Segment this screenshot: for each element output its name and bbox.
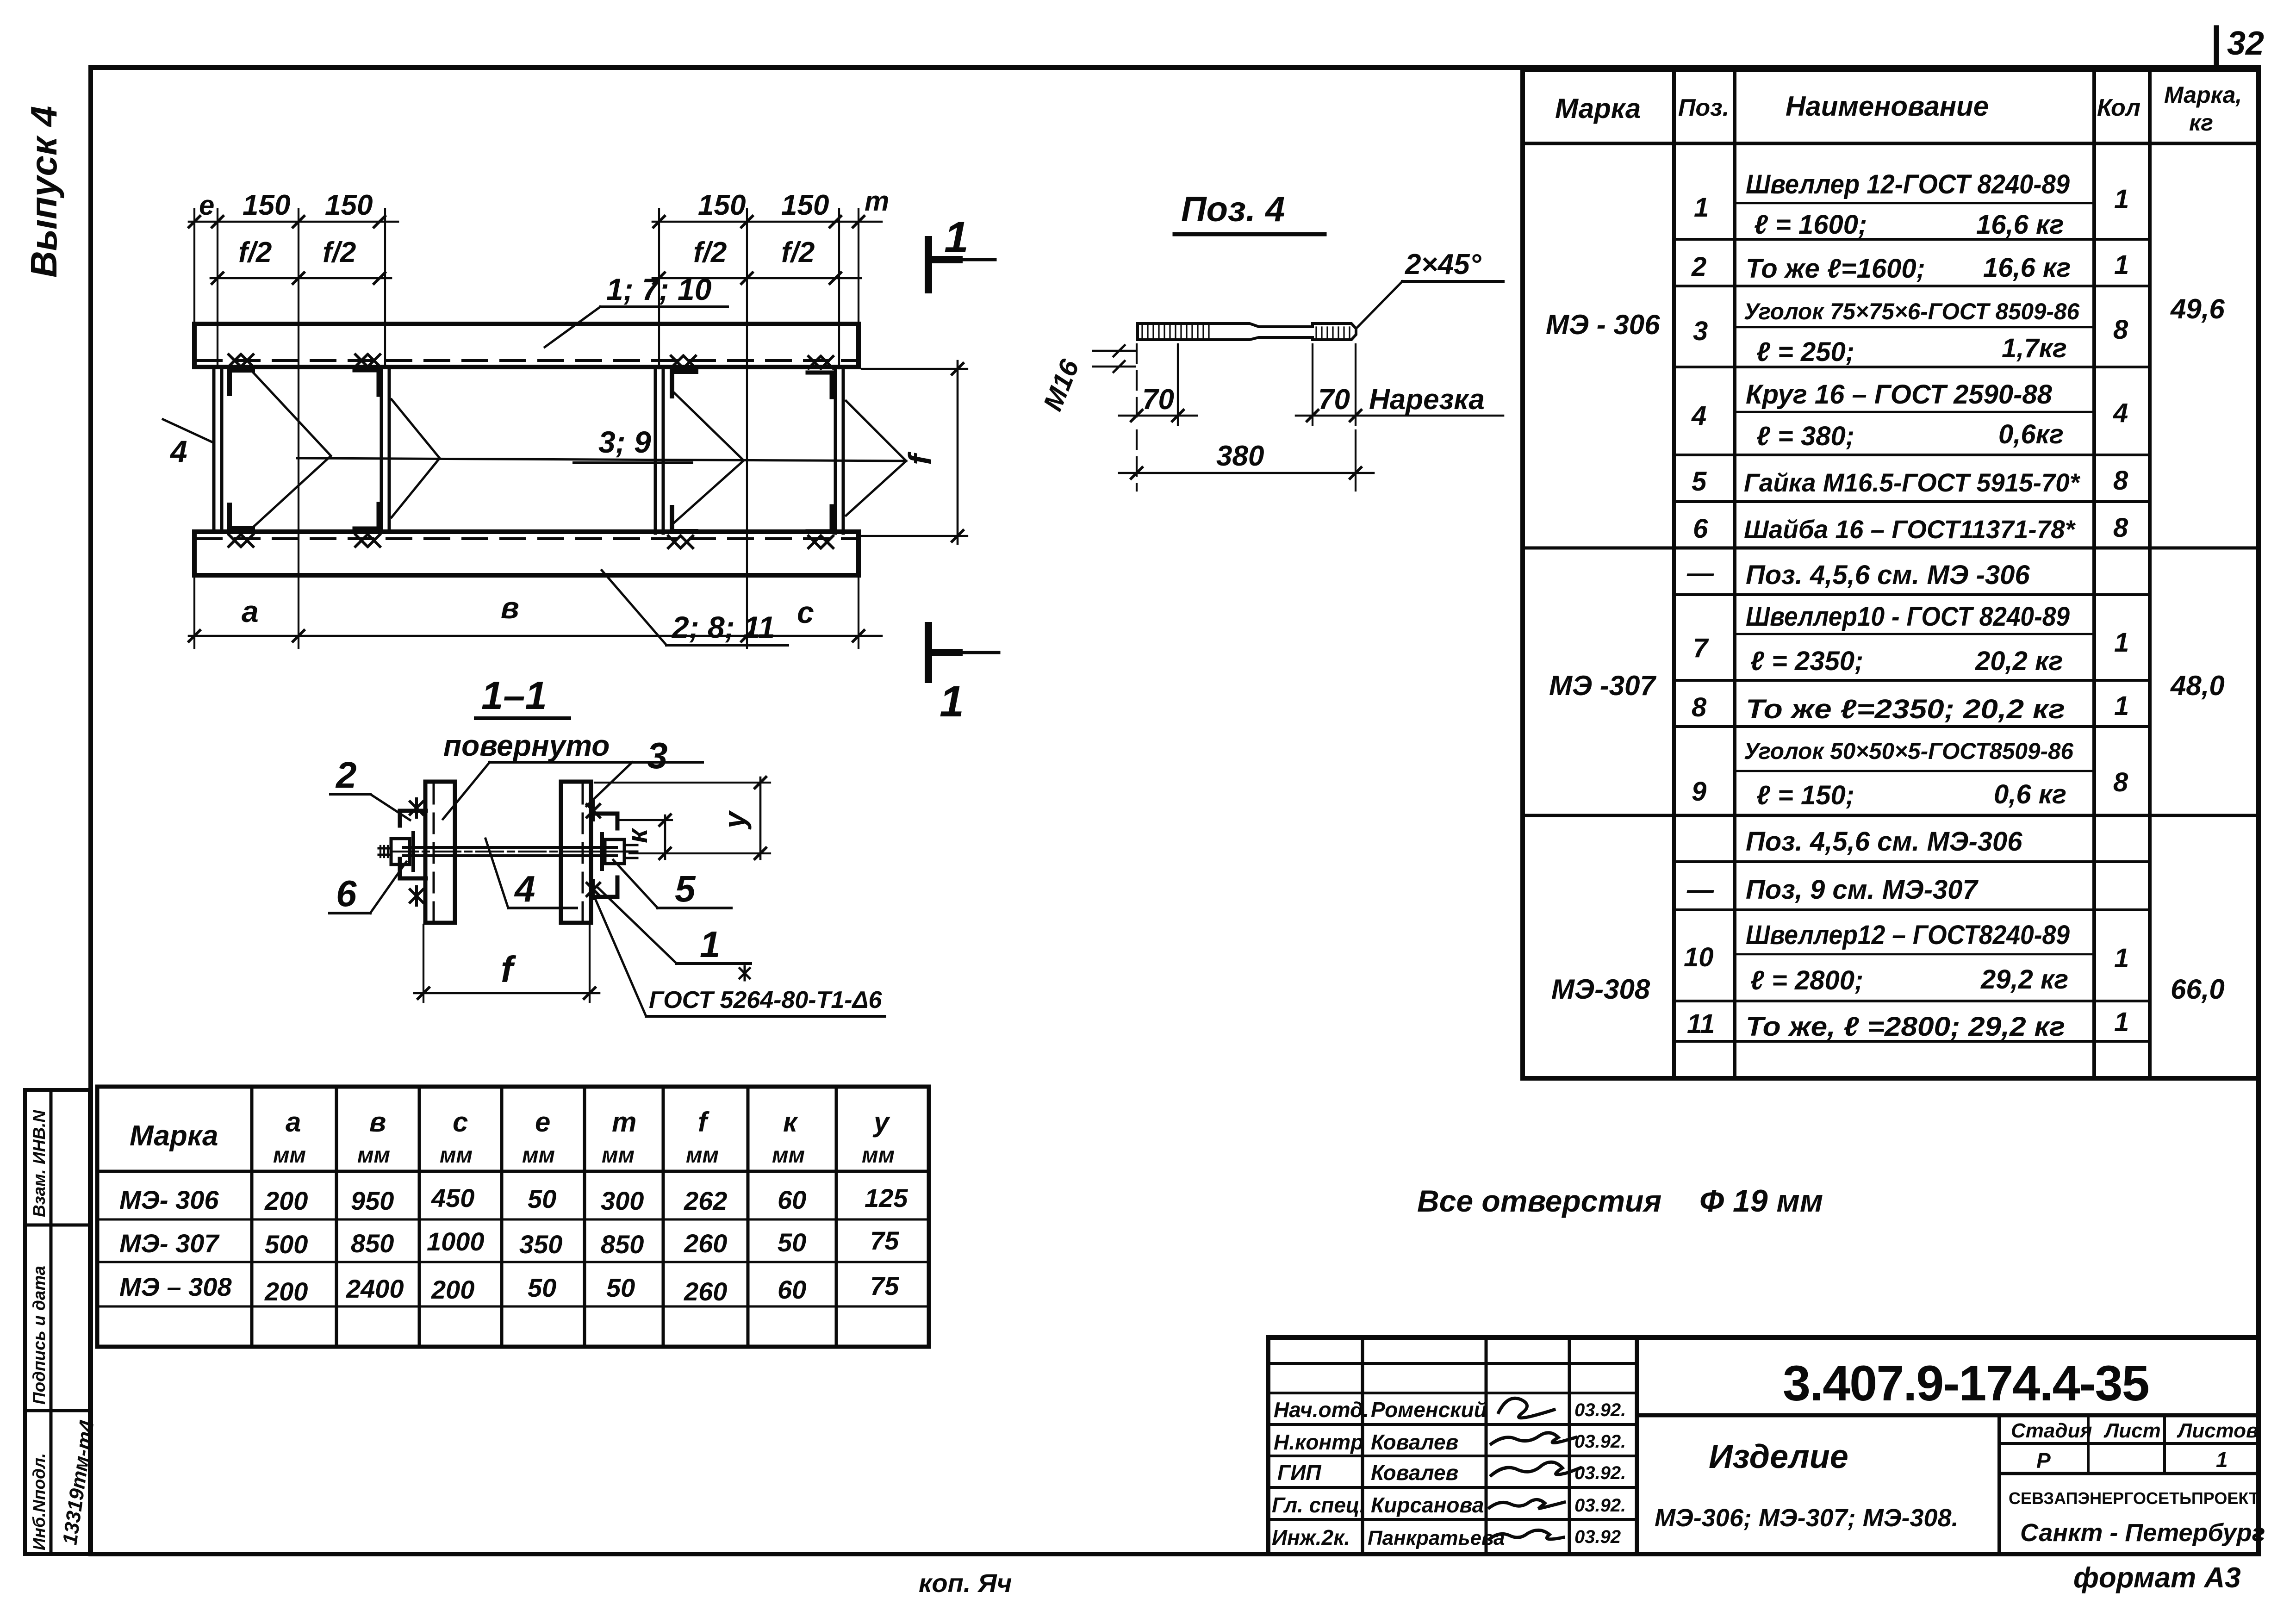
svg-text:ℓ = 150;: ℓ = 150; xyxy=(1756,780,1854,810)
svg-text:Выпуск 4: Выпуск 4 xyxy=(23,106,64,278)
svg-text:4: 4 xyxy=(1691,401,1706,431)
svg-text:e: e xyxy=(199,190,214,221)
strut 3 angle pair xyxy=(654,368,657,533)
svg-text:Все отверстия: Все отверстия xyxy=(1417,1184,1661,1218)
strut 1 top cleat xyxy=(230,370,253,394)
svg-text:коп. Яч: коп. Яч xyxy=(919,1568,1012,1598)
section dimension у xyxy=(595,782,770,784)
svg-text:Стадия: Стадия xyxy=(2011,1419,2092,1442)
svg-text:МЭ-308: МЭ-308 xyxy=(1551,974,1650,1005)
svg-text:1,7кг: 1,7кг xyxy=(2002,333,2067,363)
BOM vertical: Марка|Поз xyxy=(1672,69,1676,1078)
svg-text:Роменский: Роменский xyxy=(1371,1398,1487,1422)
svg-text:То же ℓ=1600;: То же ℓ=1600; xyxy=(1746,254,1925,284)
BOM row lines xyxy=(1735,202,2094,205)
strut 1 angle pair (poz 3;9) xyxy=(212,367,216,532)
svg-text:МЭ- 306: МЭ- 306 xyxy=(119,1185,219,1214)
svg-text:950: 950 xyxy=(351,1186,394,1215)
signature squiggles xyxy=(1499,1398,1554,1418)
svg-text:Нарезка: Нарезка xyxy=(1369,384,1485,416)
svg-text:Лист: Лист xyxy=(2103,1419,2161,1442)
bottom extension lines xyxy=(193,575,195,648)
strut 4 bottom cleat xyxy=(808,506,832,531)
svg-text:—: — xyxy=(1686,558,1714,588)
svg-text:50: 50 xyxy=(528,1184,556,1213)
svg-text:8: 8 xyxy=(1692,692,1707,722)
svg-text:1: 1 xyxy=(2114,250,2129,280)
svg-text:Листов: Листов xyxy=(2177,1419,2259,1442)
svg-text:мм: мм xyxy=(273,1143,306,1168)
svg-text:мм: мм xyxy=(602,1143,635,1168)
svg-text:ℓ = 250;: ℓ = 250; xyxy=(1756,337,1854,367)
svg-text:Санкт - Петербург: Санкт - Петербург xyxy=(2020,1519,2265,1547)
svg-text:380: 380 xyxy=(1216,440,1264,472)
svg-text:6: 6 xyxy=(336,873,357,914)
strut 4 top cleat xyxy=(808,373,832,397)
extension lines top-left xyxy=(193,209,195,324)
svg-text:75: 75 xyxy=(870,1271,899,1300)
svg-text:70: 70 xyxy=(1318,384,1350,416)
left bolt tip xyxy=(379,847,391,850)
svg-text:260: 260 xyxy=(684,1277,727,1306)
svg-text:1: 1 xyxy=(1694,193,1709,223)
page number tick mark xyxy=(2214,28,2219,68)
svg-text:60: 60 xyxy=(778,1185,806,1214)
svg-text:m: m xyxy=(865,186,889,217)
svg-text:Ф 19 мм: Ф 19 мм xyxy=(1699,1183,1823,1219)
svg-text:ГОСТ 5264-80-Т1-Δ6: ГОСТ 5264-80-Т1-Δ6 xyxy=(649,987,883,1014)
svg-text:200: 200 xyxy=(431,1275,474,1304)
document number cell xyxy=(1637,1413,2259,1418)
svg-text:1: 1 xyxy=(944,213,969,262)
svg-text:Поз. 4,5,6 см. МЭ -306: Поз. 4,5,6 см. МЭ -306 xyxy=(1746,560,2030,590)
dim table header line xyxy=(97,1170,929,1173)
svg-text:Подпись и дата: Подпись и дата xyxy=(30,1266,49,1405)
svg-text:c: c xyxy=(453,1107,468,1138)
svg-text:1: 1 xyxy=(2114,943,2129,973)
svg-text:a: a xyxy=(286,1107,301,1138)
svg-text:2: 2 xyxy=(335,754,357,796)
svg-text:f/2: f/2 xyxy=(781,236,815,268)
right bolt tip hatched xyxy=(624,845,637,858)
svg-text:48,0: 48,0 xyxy=(2170,670,2225,701)
svg-text:300: 300 xyxy=(601,1186,644,1215)
svg-text:125: 125 xyxy=(865,1183,908,1213)
svg-text:2: 2 xyxy=(1691,252,1706,282)
svg-text:Н.контр: Н.контр xyxy=(1274,1430,1363,1454)
svg-text:2; 8; 11: 2; 8; 11 xyxy=(671,610,775,644)
svg-text:у: у xyxy=(717,810,752,830)
svg-text:Инж.2к.: Инж.2к. xyxy=(1272,1525,1350,1549)
signature zone row lines xyxy=(1268,1362,1637,1365)
strut 1 top weld marks xyxy=(229,354,253,367)
rod left end cap xyxy=(1136,323,1139,340)
section mark 1 (top) xyxy=(925,240,932,290)
svg-text:03.92.: 03.92. xyxy=(1574,1400,1626,1420)
svg-text:МЭ- 307: МЭ- 307 xyxy=(119,1229,220,1258)
svg-text:m: m xyxy=(612,1107,636,1138)
svg-text:70: 70 xyxy=(1142,384,1174,416)
left margin stamp column box xyxy=(25,1090,90,1554)
left margin stamp column divider xyxy=(50,1090,53,1554)
svg-text:60: 60 xyxy=(778,1275,806,1304)
svg-text:Марка,: Марка, xyxy=(2164,82,2242,108)
svg-text:Поз.: Поз. xyxy=(1678,94,1729,121)
left washer xyxy=(411,833,415,870)
title block outer border xyxy=(1268,1337,2259,1554)
svg-text:1000: 1000 xyxy=(427,1227,485,1256)
svg-text:Нач.отд.: Нач.отд. xyxy=(1274,1398,1369,1422)
top channel (poz 1;7;10) xyxy=(194,324,859,367)
svg-text:20,2 кг: 20,2 кг xyxy=(1975,646,2063,676)
top-left dimension row: f/2 f/2 xyxy=(211,277,391,280)
svg-text:850: 850 xyxy=(601,1230,644,1259)
top-right dimension row: f/2 f/2 xyxy=(653,277,861,280)
strut 4 top weld marks xyxy=(809,356,833,368)
BOM vertical: Кол|Марка,кг xyxy=(2148,69,2152,1078)
svg-text:49,6: 49,6 xyxy=(2170,293,2225,324)
BOM vertical: Поз|Наименование xyxy=(1733,69,1736,1078)
section weld marks xyxy=(410,799,423,817)
svg-text:f/2: f/2 xyxy=(693,236,727,268)
svg-text:Круг 16 – ГОСТ 2590-88: Круг 16 – ГОСТ 2590-88 xyxy=(1746,379,2053,410)
svg-text:29,2 кг: 29,2 кг xyxy=(1980,964,2068,995)
bottom channel (poz 2;8;11) xyxy=(194,532,859,575)
svg-text:Уголок 75×75×6-ГОСТ 8509-86: Уголок 75×75×6-ГОСТ 8509-86 xyxy=(1744,298,2080,324)
svg-text:e: e xyxy=(535,1107,550,1138)
svg-text:3.407.9-174.4-35: 3.407.9-174.4-35 xyxy=(1783,1355,2149,1411)
svg-text:мм: мм xyxy=(440,1143,473,1168)
svg-text:МЭ -307: МЭ -307 xyxy=(1549,670,1656,701)
svg-text:мм: мм xyxy=(862,1143,895,1168)
svg-text:50: 50 xyxy=(528,1273,556,1302)
svg-text:8: 8 xyxy=(2113,767,2128,797)
right channel flange plate xyxy=(561,782,591,923)
left thread hatching xyxy=(1142,324,1209,339)
strut 2 angle pair xyxy=(380,367,383,532)
dim table row lines xyxy=(97,1219,929,1221)
svg-text:1: 1 xyxy=(700,924,721,965)
svg-text:2×45°: 2×45° xyxy=(1405,249,1482,280)
svg-text:Гл. спец.: Гл. спец. xyxy=(1272,1493,1365,1517)
section dimension к xyxy=(620,819,672,821)
svg-text:Уголок 50×50×5-ГОСТ8509-86: Уголок 50×50×5-ГОСТ8509-86 xyxy=(1744,738,2074,764)
svg-text:8: 8 xyxy=(2113,315,2128,345)
svg-text:0,6кг: 0,6кг xyxy=(1998,419,2064,449)
svg-text:Марка: Марка xyxy=(1555,93,1641,124)
dimension 70 (right) + Нарезка leader xyxy=(1312,344,1313,425)
svg-text:повернуто: повернуто xyxy=(443,729,610,762)
svg-text:Кирсанова: Кирсанова xyxy=(1371,1493,1484,1517)
svg-text:ГИП: ГИП xyxy=(1277,1461,1321,1485)
svg-text:200: 200 xyxy=(264,1186,308,1215)
section mark 1 (bottom) xyxy=(925,626,932,679)
svg-text:1: 1 xyxy=(2216,1448,2228,1472)
strut 3 top cleat xyxy=(672,372,696,396)
svg-text:850: 850 xyxy=(351,1229,394,1258)
svg-text:МЭ-306; МЭ-307; МЭ-308.: МЭ-306; МЭ-307; МЭ-308. xyxy=(1655,1504,1959,1532)
strut 4 chevron brace lines xyxy=(846,401,906,516)
svg-text:6: 6 xyxy=(1693,514,1708,544)
svg-text:150: 150 xyxy=(698,189,746,221)
svg-text:1: 1 xyxy=(2114,691,2129,721)
signature zone verticals xyxy=(1361,1337,1364,1554)
svg-text:Инб.Nподл.: Инб.Nподл. xyxy=(30,1453,49,1550)
svg-text:—: — xyxy=(1686,875,1714,905)
svg-text:4: 4 xyxy=(514,868,535,909)
svg-text:Ковалев: Ковалев xyxy=(1371,1430,1458,1454)
BOM header bottom line xyxy=(1523,142,2259,145)
strut 2 chevron brace lines xyxy=(392,399,440,517)
svg-text:4: 4 xyxy=(2113,398,2128,428)
section dimension f xyxy=(423,925,424,1002)
strut 3 chevron brace lines xyxy=(674,392,744,523)
dimension 380 xyxy=(1136,430,1138,491)
svg-text:5: 5 xyxy=(675,868,696,909)
svg-text:к: к xyxy=(622,827,653,843)
svg-text:1–1: 1–1 xyxy=(481,674,547,718)
right plate hidden web dashed line xyxy=(582,784,584,920)
svg-text:Ковалев: Ковалев xyxy=(1371,1461,1458,1485)
svg-text:Шайба 16 – ГОСТ11371-78*: Шайба 16 – ГОСТ11371-78* xyxy=(1744,515,2076,544)
svg-text:То же, ℓ =2800; 29,2 кг: То же, ℓ =2800; 29,2 кг xyxy=(1746,1012,2065,1042)
left plate hidden web dashed line xyxy=(433,784,435,920)
strut 3 bottom cleat xyxy=(672,507,696,531)
svg-text:мм: мм xyxy=(357,1143,390,1168)
svg-text:260: 260 xyxy=(684,1229,727,1258)
top-right dimension row: 150 150 m xyxy=(653,221,882,223)
bottom dimension row: a в c xyxy=(189,635,882,637)
svg-text:c: c xyxy=(797,595,814,629)
svg-text:150: 150 xyxy=(243,189,290,221)
strut 2 top weld marks xyxy=(355,354,380,367)
svg-text:150: 150 xyxy=(325,189,373,221)
strut 1 bottom cleat xyxy=(230,505,253,529)
strut 1 chevron brace lines xyxy=(254,373,331,527)
strut 2 top cleat xyxy=(355,370,379,395)
svg-text:1: 1 xyxy=(2114,628,2129,658)
left channel flange plate xyxy=(425,782,455,923)
svg-text:Швеллер12 – ГОСТ8240-89: Швеллер12 – ГОСТ8240-89 xyxy=(1746,920,2070,950)
strut 2 bottom weld marks xyxy=(355,535,380,547)
svg-text:у: у xyxy=(872,1107,890,1138)
svg-text:Швеллер10 - ГОСТ 8240-89: Швеллер10 - ГОСТ 8240-89 xyxy=(1746,602,2070,632)
svg-text:Наименование: Наименование xyxy=(1786,91,1989,122)
svg-text:500: 500 xyxy=(265,1230,308,1259)
svg-text:Поз, 9 см. МЭ-307: Поз, 9 см. МЭ-307 xyxy=(1746,875,1979,905)
dim table outer border xyxy=(97,1087,929,1347)
svg-text:1: 1 xyxy=(2114,1007,2129,1037)
rod body xyxy=(1138,323,1356,340)
svg-text:8: 8 xyxy=(2113,513,2128,543)
dimension 70 (left) xyxy=(1136,344,1138,425)
svg-text:Кол: Кол xyxy=(2097,94,2140,121)
strut 2 bottom cleat xyxy=(355,504,379,529)
svg-text:0,6 кг: 0,6 кг xyxy=(1994,779,2066,809)
strut 3 bottom weld marks xyxy=(668,536,693,548)
svg-text:Швеллер 12-ГОСТ 8240-89: Швеллер 12-ГОСТ 8240-89 xyxy=(1746,169,2070,199)
dim table verticals xyxy=(250,1087,254,1347)
svg-text:03.92: 03.92 xyxy=(1574,1527,1621,1547)
svg-text:3: 3 xyxy=(647,735,668,776)
stage/sheet sub-table xyxy=(1999,1442,2259,1445)
top channel hidden flange dashed line xyxy=(197,359,856,362)
right top angle cleat xyxy=(591,814,617,828)
top-left dimension row: e 150 150 xyxy=(189,221,398,223)
svg-text:9: 9 xyxy=(1692,777,1706,807)
svg-text:66,0: 66,0 xyxy=(2171,974,2225,1005)
svg-text:200: 200 xyxy=(264,1277,308,1306)
svg-text:Гайка М16.5-ГОСТ 5915-70*: Гайка М16.5-ГОСТ 5915-70* xyxy=(1744,468,2080,497)
svg-text:ℓ = 2800;: ℓ = 2800; xyxy=(1750,965,1863,995)
svg-text:2400: 2400 xyxy=(346,1274,404,1303)
svg-text:То же ℓ=2350; 20,2 кг: То же ℓ=2350; 20,2 кг xyxy=(1746,694,2065,724)
svg-text:16,6 кг: 16,6 кг xyxy=(1976,210,2064,240)
BOM table outer border xyxy=(1523,69,2259,1078)
svg-text:кг: кг xyxy=(2189,110,2213,136)
svg-text:f/2: f/2 xyxy=(323,236,356,268)
svg-text:350: 350 xyxy=(519,1230,562,1259)
svg-text:50: 50 xyxy=(778,1228,806,1257)
right vertical dimension f xyxy=(862,368,967,370)
M16 witness lines xyxy=(1093,350,1135,352)
bottom channel hidden flange dashed line xyxy=(197,537,856,540)
svg-text:03.92.: 03.92. xyxy=(1574,1463,1626,1483)
strut 4 bottom weld marks xyxy=(809,536,833,548)
strut 3 top weld marks xyxy=(671,356,696,368)
svg-text:50: 50 xyxy=(606,1273,635,1302)
svg-text:мм: мм xyxy=(686,1143,719,1168)
left top angle cleat xyxy=(400,811,426,826)
right bottom angle cleat xyxy=(591,877,617,897)
Изделие cell divider xyxy=(1997,1415,2001,1554)
svg-text:5: 5 xyxy=(1692,466,1707,497)
svg-text:Поз. 4: Поз. 4 xyxy=(1181,190,1285,229)
right nut xyxy=(605,839,624,864)
svg-text:СЕВЗАПЭНЕРГОСЕТЬПРОЕКТ: СЕВЗАПЭНЕРГОСЕТЬПРОЕКТ xyxy=(2009,1489,2259,1508)
svg-text:4: 4 xyxy=(169,434,187,468)
svg-text:Поз. 4,5,6 см. МЭ-306: Поз. 4,5,6 см. МЭ-306 xyxy=(1746,827,2022,857)
svg-text:к: к xyxy=(783,1107,798,1138)
strut 1 bottom weld marks xyxy=(229,535,253,547)
svg-text:8: 8 xyxy=(2113,466,2128,496)
svg-text:формат А3: формат А3 xyxy=(2073,1562,2241,1594)
svg-text:МЭ – 308: МЭ – 308 xyxy=(119,1272,232,1301)
left bottom angle cleat xyxy=(400,859,426,878)
svg-text:Панкратьева: Панкратьева xyxy=(1368,1527,1505,1549)
svg-text:ℓ = 1600;: ℓ = 1600; xyxy=(1754,210,1867,240)
right washer xyxy=(600,834,604,869)
svg-text:450: 450 xyxy=(431,1183,474,1213)
svg-text:Р: Р xyxy=(2036,1449,2051,1473)
svg-text:11: 11 xyxy=(1687,1009,1715,1039)
left nut xyxy=(391,839,410,864)
extension lines top-right xyxy=(658,209,660,368)
svg-text:ℓ = 380;: ℓ = 380; xyxy=(1756,421,1854,451)
svg-text:03.92.: 03.92. xyxy=(1574,1495,1626,1516)
plan centerline through chevron apexes xyxy=(297,458,906,461)
svg-text:3: 3 xyxy=(1693,316,1708,346)
svg-text:7: 7 xyxy=(1693,633,1709,663)
strut 4 angle pair xyxy=(834,368,837,533)
svg-text:150: 150 xyxy=(781,189,829,221)
svg-text:Марка: Марка xyxy=(130,1120,218,1152)
svg-text:10: 10 xyxy=(1684,942,1714,972)
svg-text:32: 32 xyxy=(2227,25,2264,62)
svg-text:03.92.: 03.92. xyxy=(1574,1431,1626,1452)
svg-text:мм: мм xyxy=(772,1143,805,1168)
BOM vertical: Наименование|Кол xyxy=(2092,69,2096,1078)
svg-text:16,6 кг: 16,6 кг xyxy=(1983,253,2071,283)
right thread hatching xyxy=(1316,327,1350,339)
svg-text:в: в xyxy=(501,591,519,625)
svg-text:a: a xyxy=(242,594,259,628)
svg-text:1: 1 xyxy=(940,677,964,726)
svg-text:мм: мм xyxy=(522,1143,555,1168)
svg-text:262: 262 xyxy=(684,1186,727,1215)
rod centerline xyxy=(391,851,632,852)
svg-text:3; 9: 3; 9 xyxy=(598,425,651,459)
svg-text:в: в xyxy=(369,1107,386,1138)
svg-text:Изделие: Изделие xyxy=(1709,1438,1848,1475)
svg-text:75: 75 xyxy=(870,1226,899,1255)
tie rod (poz 4) xyxy=(404,846,616,849)
svg-text:1: 1 xyxy=(2114,184,2129,214)
svg-text:МЭ - 306: МЭ - 306 xyxy=(1546,309,1660,340)
svg-text:f/2: f/2 xyxy=(238,236,272,268)
svg-text:Взам. ИНВ.N: Взам. ИНВ.N xyxy=(30,1110,49,1217)
svg-text:ℓ = 2350;: ℓ = 2350; xyxy=(1750,646,1863,676)
